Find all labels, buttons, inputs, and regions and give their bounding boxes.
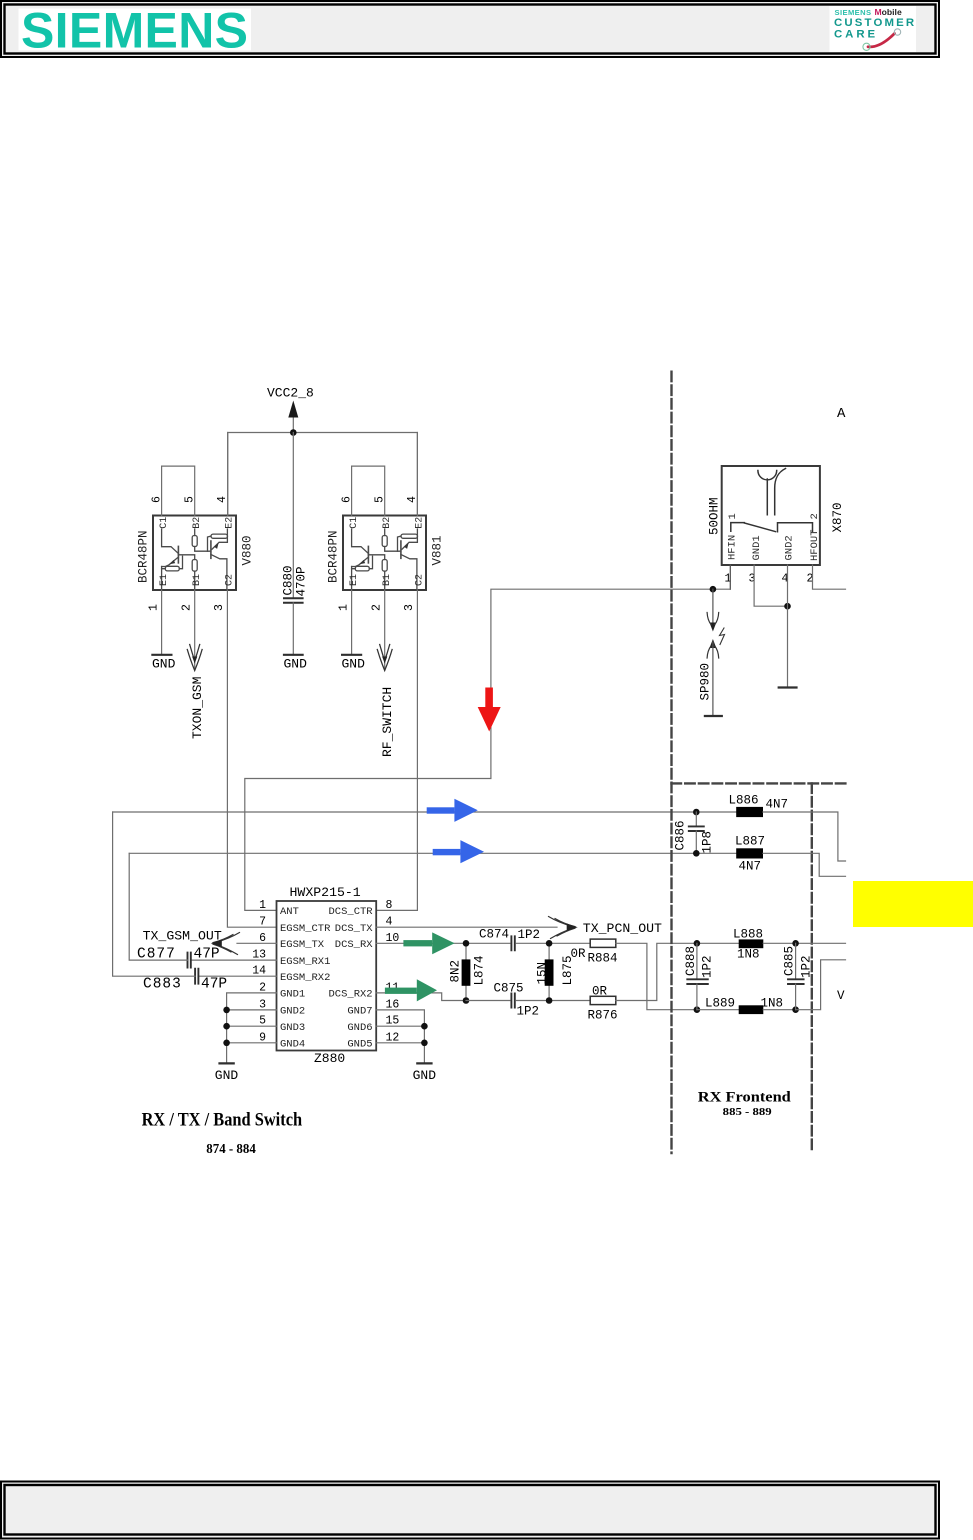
wire ANT net: HFIN to Z880 ANT pin: [245, 589, 731, 910]
wire GND2 pin3: [227, 1009, 277, 1011]
signal arrow TX_GSM_OUT: [143, 929, 240, 955]
annotation blue arrow rail A: [427, 799, 478, 822]
svg-text:V881: V881: [431, 535, 445, 565]
svg-text:GND: GND: [284, 657, 308, 672]
svg-text:GND2: GND2: [784, 535, 796, 560]
svg-text:GND2: GND2: [280, 1006, 305, 1018]
svg-text:C883: C883: [143, 977, 182, 993]
svg-text:50OHM: 50OHM: [708, 497, 722, 535]
pin numbers Z880 left: [252, 899, 266, 1044]
pin labels Z880 right: [328, 906, 373, 1050]
dashed partition line right: [811, 783, 813, 1153]
svg-text:TXON_GSM: TXON_GSM: [190, 677, 205, 739]
wire C877 to RX rail B: [129, 853, 187, 960]
svg-text:1: 1: [148, 604, 161, 611]
node junctions L874: [463, 940, 470, 947]
transistor V880 BCR48PN: [153, 516, 236, 591]
node junction SP980 tap: [710, 586, 717, 593]
wire V881 pins 6-5 bracket: [352, 466, 385, 515]
svg-text:1: 1: [727, 513, 739, 519]
svg-text:HFIN: HFIN: [727, 535, 739, 560]
dashed partition line left: [670, 372, 672, 1153]
svg-text:7: 7: [259, 916, 266, 929]
svg-text:1P2: 1P2: [518, 928, 541, 942]
svg-text:0R: 0R: [592, 984, 608, 998]
wire C880 to ground: [292, 603, 294, 655]
wire X870 pin1 stub: [729, 565, 731, 589]
svg-text:1N8: 1N8: [761, 997, 784, 1011]
wire top RX rail through L888: [697, 942, 739, 944]
node junctions right GND rail: [421, 1023, 428, 1030]
signal arrow RF_SWITCH: [377, 645, 395, 758]
wire L886 out: [763, 812, 846, 861]
svg-text:L887: L887: [735, 835, 765, 849]
svg-text:GND6: GND6: [347, 1022, 372, 1034]
svg-text:1P2: 1P2: [701, 955, 715, 978]
svg-text:DCS_TX: DCS_TX: [335, 923, 374, 935]
inductor L874 8N2: [449, 943, 487, 1000]
wire EGSM_RX1 pin13: [191, 959, 277, 961]
inductor L886 4N7: [729, 794, 789, 818]
wire GND6 pin15: [376, 1025, 424, 1027]
wire GND7 pin16 rail: [376, 1010, 424, 1063]
svg-text:HFOUT: HFOUT: [809, 529, 821, 561]
wire GND3 pin5: [227, 1025, 277, 1027]
pin numbers Z880 right: [386, 899, 400, 1044]
wire DCS_RX pin10: [376, 942, 510, 944]
svg-text:885 - 889: 885 - 889: [723, 1106, 773, 1118]
svg-text:CUSTOMER: CUSTOMER: [834, 17, 915, 29]
inductor L887 4N7: [735, 835, 765, 874]
svg-text:3: 3: [403, 604, 416, 611]
resistor R876 0R: [588, 984, 618, 1022]
svg-text:RF_SWITCH: RF_SWITCH: [380, 687, 395, 757]
svg-text:GND: GND: [342, 657, 366, 672]
capacitor C877 47P: [137, 947, 220, 968]
annotation green arrow DCS_RX2: [385, 979, 437, 1001]
ground V881 pin1: [342, 655, 366, 672]
wire L887 out: [763, 853, 846, 876]
ground Z880 left: [215, 1063, 239, 1083]
wire GND5 pin12: [376, 1042, 424, 1044]
svg-text:L889: L889: [705, 997, 735, 1011]
signal arrow TX_PCN_OUT: [549, 917, 663, 939]
svg-text:4N7: 4N7: [766, 798, 789, 812]
node junction pin3/pin4: [784, 603, 791, 610]
wire R876 to top RX rail: [616, 943, 697, 1000]
IC Z880 HWXP215-1: [277, 901, 377, 1051]
svg-text:4: 4: [406, 496, 419, 503]
spark gap SP980: [699, 589, 725, 716]
svg-text:1: 1: [338, 604, 351, 611]
inductor L875 15N: [536, 943, 576, 1000]
node junctions left GND rail: [223, 1007, 230, 1014]
wire GND1 pin2 rail: [227, 993, 277, 1063]
svg-text:BCR48PN: BCR48PN: [327, 530, 341, 583]
pin numbers V881 top 6 5 4: [338, 496, 420, 611]
pin numbers V880 top 6 5 4: [148, 496, 230, 611]
svg-text:1P2: 1P2: [517, 1004, 540, 1018]
svg-text:1P8: 1P8: [701, 831, 715, 854]
svg-text:SIEMENS: SIEMENS: [835, 8, 872, 17]
svg-text:2: 2: [371, 604, 384, 611]
capacitor C875 1P2: [494, 981, 540, 1018]
svg-text:L875: L875: [561, 955, 575, 985]
wire R884 to bottom RX rail: [616, 943, 697, 1009]
node junction C886 top: [693, 809, 700, 816]
svg-text:C885: C885: [783, 946, 797, 976]
svg-text:L886: L886: [729, 794, 759, 808]
svg-text:EGSM_TX: EGSM_TX: [280, 939, 325, 951]
svg-text:SIEMENS: SIEMENS: [21, 3, 247, 59]
svg-text:R884: R884: [588, 952, 618, 966]
footer frame: [1, 1482, 939, 1539]
wire C883 to RX rail A: [113, 812, 196, 976]
svg-text:8: 8: [386, 899, 393, 912]
svg-text:V: V: [837, 989, 845, 1003]
ground V880 pin1: [152, 655, 176, 672]
signal arrow TXON_GSM: [187, 645, 205, 740]
svg-text:6: 6: [151, 496, 164, 503]
svg-text:L874: L874: [473, 955, 487, 985]
wire V881 pin 4 to VCC: [416, 433, 418, 516]
ground X870 pin4: [779, 686, 797, 688]
svg-text:5: 5: [184, 496, 197, 503]
wire X870 pin4 to ground: [787, 565, 789, 687]
svg-text:47P: 47P: [201, 977, 227, 993]
wire V881 pin2 RF_SWITCH: [384, 590, 386, 669]
pin labels Z880 left: [280, 906, 331, 1050]
wire C875 to L875 bottom: [516, 1000, 590, 1002]
wire V880 pins 6-5 bracket: [162, 466, 195, 515]
wire V880 pin2 TXON_GSM: [194, 590, 196, 669]
wire V880 pin1 to ground: [161, 590, 163, 655]
svg-text:X870: X870: [831, 502, 845, 532]
svg-text:1N8: 1N8: [737, 947, 760, 961]
svg-text:BCR48PN: BCR48PN: [137, 530, 151, 583]
wire DCS_TX pin4 to TX_PCN_OUT: [376, 926, 557, 928]
wire RX rail B to L887: [129, 852, 736, 854]
svg-text:L888: L888: [733, 928, 763, 942]
inductor L888 1N8: [733, 928, 763, 962]
wire bottom RX rail through L889: [697, 1009, 739, 1011]
svg-text:RX Frontend: RX Frontend: [698, 1089, 791, 1105]
svg-text:4: 4: [216, 496, 229, 503]
wire EGSM_RX2 pin14: [198, 975, 276, 977]
svg-text:VCC2_8: VCC2_8: [267, 386, 314, 401]
svg-text:EGSM_RX2: EGSM_RX2: [280, 972, 330, 984]
wire L889 rail out right: [796, 960, 846, 1010]
svg-text:TX_PCN_OUT: TX_PCN_OUT: [583, 921, 662, 936]
SIEMENS logo: [19, 3, 252, 59]
node junction VCC rail / C880: [290, 429, 297, 436]
svg-text:ANT: ANT: [280, 906, 299, 918]
header frame outer: [1, 1, 939, 57]
wire X870 pin2 HFOUT out: [813, 565, 846, 589]
svg-text:C886: C886: [674, 820, 688, 850]
capacitor C885 1P2: [783, 943, 814, 1009]
pin numbers X870 1 3 4 2: [725, 573, 814, 586]
svg-text:8N2: 8N2: [449, 960, 463, 983]
svg-text:TX_GSM_OUT: TX_GSM_OUT: [143, 929, 222, 944]
svg-text:C888: C888: [684, 946, 698, 976]
svg-text:5: 5: [374, 496, 387, 503]
svg-text:1P2: 1P2: [800, 955, 814, 978]
wire V881 pin1 to ground: [351, 590, 353, 655]
wire V880 pin3 to EGSM_CTR: [227, 590, 276, 927]
antenna connector X870 50OHM: [708, 466, 846, 565]
svg-text:HWXP215-1: HWXP215-1: [290, 885, 361, 900]
svg-text:C875: C875: [494, 981, 524, 995]
wire C880 top: [292, 433, 294, 598]
annotation red arrow: [478, 688, 501, 732]
svg-text:GND: GND: [152, 657, 176, 672]
svg-text:2: 2: [181, 604, 194, 611]
capacitor C883 47P: [143, 969, 227, 993]
capacitor C880 470P: [282, 565, 309, 602]
node junction C886 bottom: [693, 850, 700, 857]
switch contacts: [731, 523, 745, 532]
wire bottom local rail: [466, 1000, 510, 1002]
wire V881 pin3 to DCS_CTR: [376, 590, 417, 910]
svg-text:A: A: [837, 406, 846, 422]
svg-text:RX / TX / Band Switch: RX / TX / Band Switch: [142, 1111, 303, 1131]
svg-text:GND7: GND7: [347, 1006, 372, 1018]
svg-text:EGSM_CTR: EGSM_CTR: [280, 923, 331, 935]
wire DCS_RX2 pin11: [376, 993, 466, 1001]
wire RX rail A to L886: [113, 811, 737, 813]
svg-text:GND: GND: [215, 1068, 239, 1083]
annotation green arrow DCS_RX: [403, 932, 454, 954]
ground Z880 right: [413, 1063, 437, 1083]
svg-text:Mobile: Mobile: [875, 7, 902, 17]
svg-text:DCS_RX: DCS_RX: [335, 939, 374, 951]
Siemens Mobile Customer Care logo: [830, 6, 917, 52]
svg-text:3: 3: [213, 604, 226, 611]
inductor L889 1N8: [705, 997, 783, 1014]
power symbol VCC2_8 arrow: [292, 418, 294, 433]
ground C880: [284, 655, 308, 672]
svg-text:4N7: 4N7: [739, 860, 762, 874]
svg-text:SP980: SP980: [699, 663, 713, 701]
svg-text:GND: GND: [413, 1068, 437, 1083]
wire X870 pin3 to pin4: [754, 565, 787, 606]
wire VCC rail: [228, 433, 418, 516]
node junctions L875: [546, 940, 553, 947]
svg-text:GND3: GND3: [280, 1022, 305, 1034]
wire L888 out: [763, 942, 845, 944]
svg-text:GND1: GND1: [751, 535, 763, 560]
annotation blue arrow rail B: [433, 840, 484, 863]
svg-text:EGSM_RX1: EGSM_RX1: [280, 956, 330, 968]
node junctions C888: [694, 940, 701, 947]
svg-text:2: 2: [809, 513, 821, 519]
svg-text:DCS_RX2: DCS_RX2: [328, 989, 372, 1001]
svg-text:R876: R876: [588, 1008, 618, 1022]
svg-text:GND4: GND4: [280, 1039, 305, 1051]
capacitor C886 1P8: [674, 812, 715, 854]
ground SP980: [705, 715, 722, 717]
resistor R884 0R: [571, 939, 618, 965]
wire C874 to L875/R884 node: [516, 942, 590, 944]
antenna symbol: [758, 471, 777, 515]
svg-text:DCS_CTR: DCS_CTR: [328, 906, 373, 918]
svg-text:1: 1: [259, 899, 266, 912]
capacitor C874 1P2: [479, 927, 540, 950]
wire GND4 pin9: [227, 1042, 277, 1044]
svg-text:GND5: GND5: [347, 1039, 372, 1051]
svg-text:C874: C874: [479, 927, 509, 941]
dashed RX frontend box top: [672, 782, 846, 784]
svg-text:470P: 470P: [295, 566, 309, 596]
node junctions C885: [792, 940, 799, 947]
svg-text:C880: C880: [282, 565, 296, 595]
svg-text:15N: 15N: [536, 962, 550, 985]
svg-text:874 - 884: 874 - 884: [206, 1141, 256, 1156]
capacitor C888 1P2: [684, 943, 715, 1009]
svg-text:V880: V880: [241, 535, 255, 565]
wire L889 out: [763, 1009, 795, 1011]
annotation yellow highlight: [853, 881, 973, 927]
wire V880 pin 4 to VCC: [227, 433, 229, 516]
svg-text:47P: 47P: [194, 947, 220, 963]
wire EGSM_TX pin6: [237, 942, 277, 944]
svg-text:6: 6: [341, 496, 354, 503]
transistor V881 BCR48PN: [343, 516, 426, 591]
svg-text:Z880: Z880: [314, 1051, 345, 1066]
svg-text:GND1: GND1: [280, 989, 305, 1001]
